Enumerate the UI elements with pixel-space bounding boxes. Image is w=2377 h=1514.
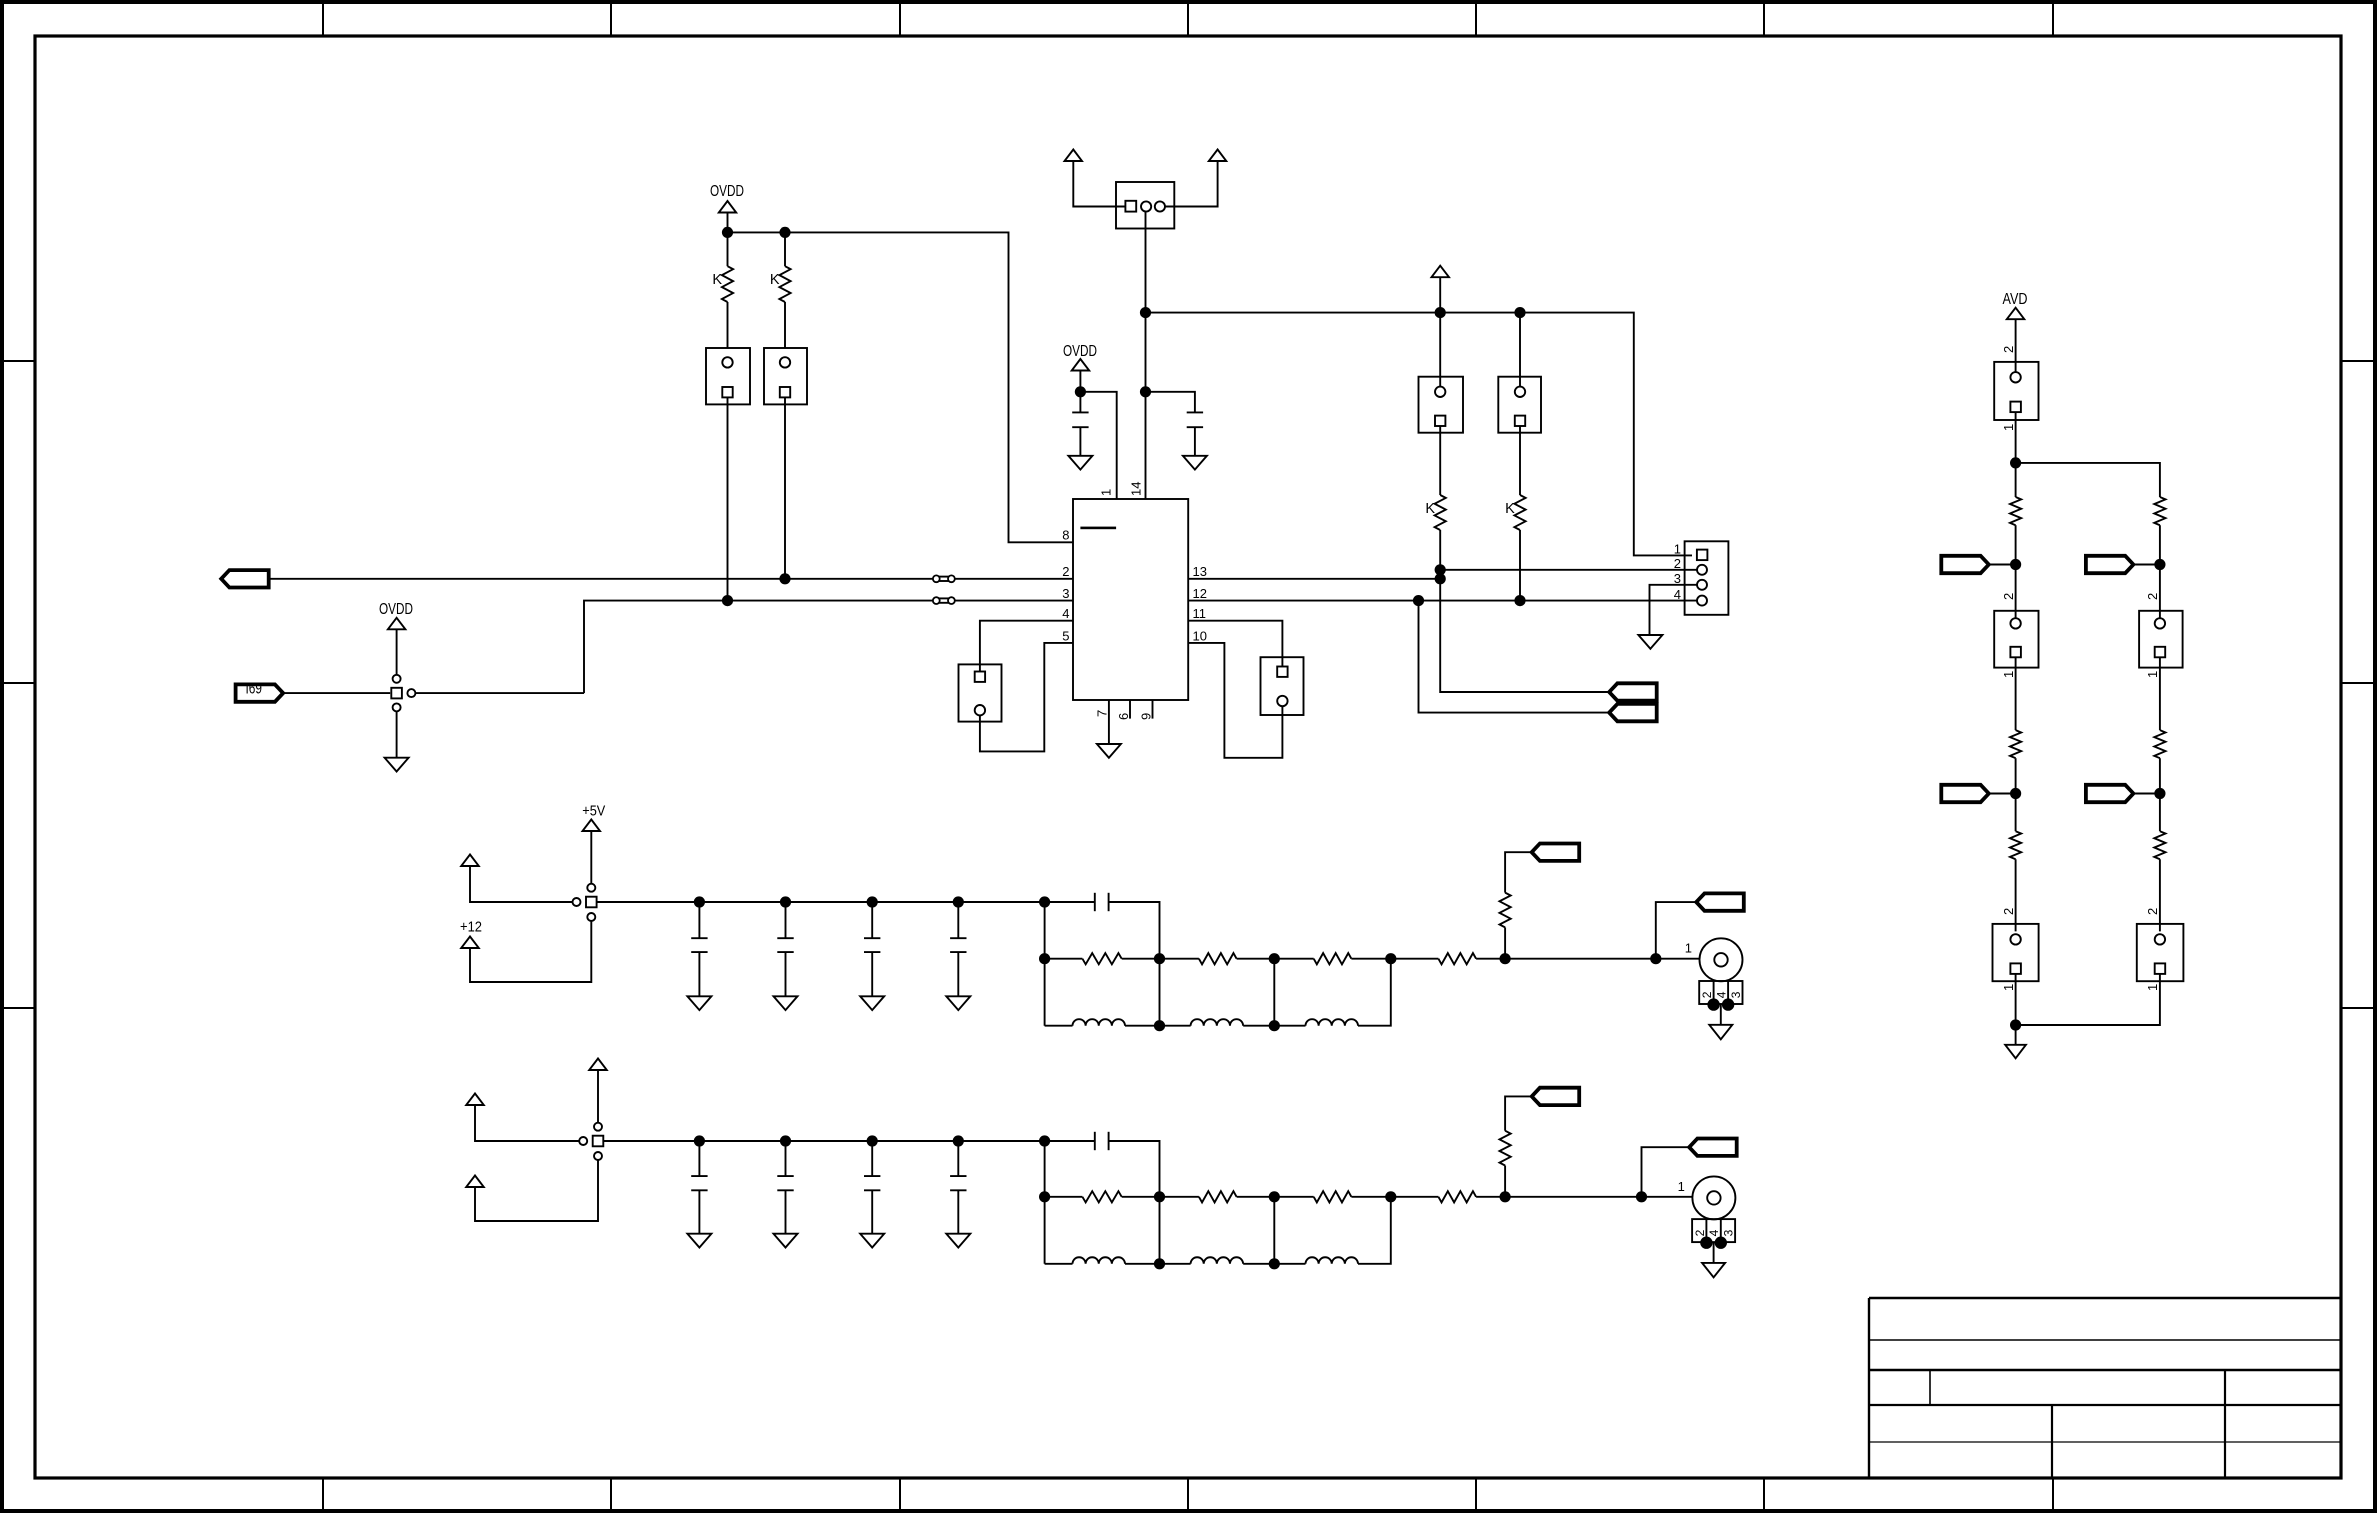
connector J1 (3-pin) bbox=[1116, 182, 1174, 229]
junction dot bbox=[2010, 1019, 2021, 1030]
wire flag F bbox=[2133, 793, 2160, 795]
junction dot bbox=[1269, 1020, 1280, 1031]
resistor R3 (CH2) bbox=[1274, 1196, 1313, 1198]
junction dot bbox=[2154, 788, 2165, 799]
inductor L1 (CH1) bbox=[1045, 1025, 1073, 1027]
svg-text:12: 12 bbox=[1193, 586, 1207, 601]
svg-text:1: 1 bbox=[1099, 489, 1114, 496]
svg-text:13: 13 bbox=[1193, 564, 1207, 579]
svg-text:2: 2 bbox=[1693, 1229, 1707, 1236]
wire left drop (CH2) bbox=[1044, 1141, 1046, 1264]
jumper J4 (4-way, CH2) bbox=[594, 1123, 602, 1131]
wire OVDD to IC pin 1 bbox=[1080, 392, 1116, 499]
junction dot bbox=[1154, 1020, 1165, 1031]
net flag I69 bbox=[236, 684, 284, 701]
wire JP5 to ground node bbox=[2016, 974, 2160, 1025]
inductor L2 (CH2) bbox=[1160, 1263, 1191, 1265]
wire node to JP4 bbox=[2159, 565, 2161, 619]
svg-text:1: 1 bbox=[1674, 542, 1681, 557]
U1 pin 9 stub bbox=[1152, 700, 1154, 719]
wire R-L tie 2 (CH2) bbox=[1273, 1197, 1275, 1264]
jumper TP3 (right pullup 1) bbox=[1419, 377, 1464, 433]
connector J3 (4-pin) bbox=[1685, 541, 1729, 615]
junction dot bbox=[1413, 595, 1424, 606]
power arrow +5V (CH2) bbox=[589, 1059, 607, 1071]
resistor R5 (CH1) bbox=[1504, 927, 1506, 958]
junction dot bbox=[1435, 564, 1446, 575]
wire to TP4 bbox=[1519, 313, 1521, 387]
jumper J2 (4-way) bbox=[393, 675, 401, 683]
junction dot bbox=[1269, 953, 1280, 964]
svg-text:4: 4 bbox=[1062, 606, 1069, 621]
wire to net flag A bbox=[1440, 579, 1609, 692]
junction dot bbox=[1500, 953, 1511, 964]
svg-text:5: 5 bbox=[1062, 629, 1069, 644]
wire pin12 bus to J3 pin4 bbox=[1188, 600, 1697, 602]
resistor R (AVD L2) bbox=[2015, 657, 2017, 730]
svg-text:1: 1 bbox=[1678, 1179, 1685, 1194]
junction dot bbox=[1707, 998, 1719, 1010]
wire bus to J3 pin2 bbox=[1440, 569, 1697, 571]
svg-text:8: 8 bbox=[1062, 528, 1069, 543]
svg-text:6: 6 bbox=[1116, 713, 1131, 720]
junction dot bbox=[779, 573, 790, 584]
junction dot bbox=[1269, 1258, 1280, 1269]
svg-text:1: 1 bbox=[2001, 424, 2016, 431]
junction dot bbox=[1385, 953, 1396, 964]
jumper JP4 bbox=[2139, 611, 2183, 668]
svg-text:9: 9 bbox=[1139, 713, 1154, 720]
resistor R3 (CH1) bbox=[1274, 958, 1313, 960]
junction dot bbox=[1039, 1191, 1050, 1202]
wire TP2 to bus bbox=[784, 397, 786, 578]
wire J1 pin2 down to IC pin 14 bbox=[1145, 212, 1147, 499]
junction dot bbox=[1154, 1191, 1165, 1202]
junction dot bbox=[780, 1135, 791, 1146]
ground (J3 pin3) bbox=[1638, 635, 1662, 649]
resistor R (AVD R2) bbox=[2159, 657, 2161, 730]
wire TP1 to bus bbox=[727, 397, 729, 600]
junction dot bbox=[1435, 573, 1446, 584]
svg-text:OVDD: OVDD bbox=[379, 601, 413, 618]
wire pin13 bus bbox=[1188, 578, 1440, 580]
junction dot bbox=[2154, 559, 2165, 570]
svg-text:14: 14 bbox=[1129, 482, 1144, 496]
ground (RCA CH1) bbox=[1709, 1025, 1732, 1040]
power arrow (left, CH2) bbox=[466, 1094, 484, 1106]
jumper JP5 bbox=[2137, 924, 2184, 981]
ground (cap CH13) bbox=[860, 996, 884, 1010]
svg-text:11: 11 bbox=[1193, 606, 1207, 621]
junction dot bbox=[779, 227, 790, 238]
wire TP6 to U1 pin 10 bbox=[1188, 643, 1282, 758]
jumper TP4 (right pullup 2) bbox=[1498, 377, 1541, 433]
wire U1 pin 4 to TP5 bbox=[980, 621, 1073, 672]
RCA shield block (CH2) bbox=[1692, 1219, 1735, 1242]
junction dot bbox=[2010, 457, 2021, 468]
junction dot bbox=[1435, 307, 1446, 318]
jumper TP5 (left of U1) bbox=[959, 664, 1002, 721]
svg-text:OVDD: OVDD bbox=[710, 183, 744, 200]
svg-text:+5V: +5V bbox=[582, 803, 605, 820]
svg-text:4: 4 bbox=[1707, 1229, 1721, 1236]
junction dot bbox=[953, 1135, 964, 1146]
ground (cap CH23) bbox=[860, 1234, 884, 1248]
wire to TP3 bbox=[1439, 313, 1441, 387]
wire to net flag B bbox=[1419, 601, 1610, 713]
svg-text:1: 1 bbox=[2001, 671, 2016, 678]
inline jumper (pin3 bus) bbox=[936, 597, 951, 599]
U1 pin 6 stub bbox=[1129, 700, 1131, 719]
junction dot bbox=[2010, 559, 2021, 570]
svg-text:K: K bbox=[1425, 501, 1435, 517]
resistor R4 (CH1) bbox=[1391, 958, 1439, 960]
svg-text:I69: I69 bbox=[246, 681, 263, 698]
svg-text:+12: +12 bbox=[460, 919, 482, 936]
svg-text:K: K bbox=[1505, 501, 1515, 517]
ground (cap CH24) bbox=[946, 1234, 970, 1248]
wire to RCA (CH2) bbox=[1642, 1196, 1693, 1198]
inductor L2 (CH1) bbox=[1160, 1025, 1191, 1027]
resistor R (AVD R3) bbox=[2159, 794, 2161, 832]
svg-text:2: 2 bbox=[1674, 556, 1681, 571]
wire +5V bus (CH1) bbox=[597, 901, 1045, 903]
net flag E bbox=[2086, 556, 2134, 573]
capacitor C (CH21) bbox=[698, 1141, 700, 1176]
inductor L3 (CH2) bbox=[1274, 1263, 1305, 1265]
jumper JP1 bbox=[1994, 362, 2038, 420]
svg-text:2: 2 bbox=[2001, 346, 2016, 353]
svg-text:1: 1 bbox=[1685, 941, 1692, 956]
junction dot bbox=[953, 896, 964, 907]
svg-text:3: 3 bbox=[1674, 571, 1681, 586]
capacitor C (CH13) bbox=[871, 902, 873, 938]
svg-text:3: 3 bbox=[1062, 586, 1069, 601]
wire RCA shield to ground bbox=[1713, 1243, 1715, 1263]
resistor K (pullup 2) bbox=[784, 232, 786, 266]
wire OVDD rail bbox=[728, 232, 1074, 542]
net flag D bbox=[1941, 785, 1989, 802]
junction dot bbox=[1039, 953, 1050, 964]
ground (cap CH11) bbox=[687, 996, 711, 1010]
wire pin3 bus bbox=[584, 601, 933, 694]
capacitor C series (CH1) bbox=[1045, 901, 1095, 903]
frame zone ticks bottom bbox=[322, 1478, 324, 1511]
capacitor C2 bbox=[1146, 392, 1195, 413]
net flag C bbox=[1941, 556, 1989, 573]
wire +5V bus (CH2) bbox=[603, 1140, 1044, 1142]
ground (cap CH14) bbox=[946, 996, 970, 1010]
resistor R1 (CH1) bbox=[1045, 958, 1083, 960]
wire J3 pin3 to ground bbox=[1650, 585, 1698, 635]
capacitor C (CH24) bbox=[957, 1141, 959, 1176]
wire left drop (CH1) bbox=[1044, 902, 1046, 1026]
capacitor C (CH23) bbox=[871, 1141, 873, 1176]
ground (U1 pin 7) bbox=[1097, 744, 1121, 758]
svg-text:1: 1 bbox=[2001, 984, 2016, 991]
frame zone ticks top bbox=[322, 2, 324, 36]
junction dot bbox=[1514, 595, 1525, 606]
wire J2 to ground bbox=[396, 711, 398, 757]
junction dot bbox=[867, 896, 878, 907]
junction dot bbox=[1039, 1135, 1050, 1146]
net flag F bbox=[2086, 785, 2134, 802]
svg-text:4: 4 bbox=[1714, 991, 1728, 998]
power arrow (left, CH1) bbox=[461, 855, 479, 867]
net flag (CH1 right) bbox=[1696, 893, 1744, 910]
ground (C2) bbox=[1183, 456, 1207, 470]
capacitor C (CH22) bbox=[785, 1141, 787, 1176]
junction dot bbox=[1514, 307, 1525, 318]
wire flag E bbox=[2133, 564, 2160, 566]
junction dot bbox=[694, 896, 705, 907]
svg-text:7: 7 bbox=[1095, 710, 1110, 717]
svg-text:2: 2 bbox=[1062, 564, 1069, 579]
junction dot bbox=[722, 227, 733, 238]
power arrow (top left of J1) bbox=[1065, 150, 1083, 162]
wire R-L tie 2 (CH1) bbox=[1273, 959, 1275, 1026]
wire flag D bbox=[1989, 793, 2016, 795]
svg-text:4: 4 bbox=[1674, 587, 1681, 602]
RCA connector (CH1) bbox=[1700, 938, 1743, 981]
net flag (CH2 right) bbox=[1689, 1139, 1737, 1156]
net flag (CH1 upper) bbox=[1532, 844, 1580, 861]
ground (RCA CH2) bbox=[1702, 1263, 1725, 1278]
resistor R4 (CH2) bbox=[1391, 1196, 1439, 1198]
svg-text:2: 2 bbox=[2001, 908, 2016, 915]
capacitor C1 bbox=[1079, 392, 1081, 413]
wire J2 to pin3 bus bbox=[415, 692, 584, 694]
junction dot bbox=[722, 595, 733, 606]
junction dot bbox=[1700, 1237, 1712, 1249]
op-amp U1 (14-pin IC) bbox=[1073, 499, 1188, 700]
capacitor C (CH12) bbox=[785, 902, 787, 938]
junction dot bbox=[1650, 953, 1661, 964]
svg-text:OVDD: OVDD bbox=[1063, 343, 1097, 360]
resistor R (AVD L3) bbox=[2015, 794, 2017, 832]
resistor R5 (CH2) bbox=[1504, 1166, 1506, 1197]
jumper JP2 bbox=[1994, 611, 2038, 668]
wire R-L tie 1 (CH2) bbox=[1159, 1197, 1161, 1264]
svg-text:2: 2 bbox=[1700, 991, 1714, 998]
wire flag C bbox=[1989, 564, 2016, 566]
resistor R1 (CH2) bbox=[1045, 1196, 1083, 1198]
junction dot bbox=[1140, 307, 1151, 318]
frame zone ticks right bbox=[2341, 360, 2375, 362]
junction dot bbox=[1269, 1191, 1280, 1202]
net flag A bbox=[1609, 683, 1657, 700]
resistor R (AVD L1) bbox=[2015, 463, 2017, 497]
junction dot bbox=[1140, 386, 1151, 397]
wire U1 pin 11 to TP6 bbox=[1188, 621, 1282, 667]
svg-text:2: 2 bbox=[2001, 593, 2016, 600]
resistor K (pullup 1) bbox=[727, 232, 729, 266]
capacitor C series (CH2) bbox=[1045, 1140, 1095, 1142]
junction dot bbox=[867, 1135, 878, 1146]
resistor R2 (CH2) bbox=[1160, 1196, 1199, 1198]
ground (C1) bbox=[1068, 456, 1092, 470]
wire top rail bbox=[1146, 313, 1693, 556]
wire RCA shield to ground bbox=[1720, 1005, 1722, 1025]
jumper JP3 bbox=[1993, 924, 2039, 981]
junction dot bbox=[780, 896, 791, 907]
junction dot bbox=[694, 1135, 705, 1146]
wire TP5 to U1 pin 5 bbox=[980, 643, 1073, 752]
wire I69 to J2 bbox=[283, 692, 390, 694]
jumper J4 (4-way, CH1) bbox=[587, 884, 595, 892]
jumper TP6 (right of U1) bbox=[1261, 657, 1304, 715]
svg-text:2: 2 bbox=[2145, 908, 2160, 915]
junction dot bbox=[1722, 998, 1734, 1010]
junction dot bbox=[1385, 1191, 1396, 1202]
RCA shield block (CH1) bbox=[1699, 981, 1742, 1004]
resistor R2 (CH1) bbox=[1160, 958, 1199, 960]
net flag (CH2 upper) bbox=[1532, 1088, 1580, 1105]
ground (cap CH22) bbox=[774, 1234, 798, 1248]
junction dot bbox=[1075, 386, 1086, 397]
RCA connector (CH2) bbox=[1692, 1176, 1735, 1219]
power arrow (top right of J1) bbox=[1209, 150, 1227, 162]
junction dot bbox=[2010, 788, 2021, 799]
U1 inverted-name bar bbox=[1080, 527, 1116, 530]
net flag B bbox=[1609, 704, 1657, 721]
net flag (pin2 bus, off-page left) bbox=[221, 570, 269, 587]
svg-text:3: 3 bbox=[1729, 991, 1743, 998]
wire JP1 to node bbox=[2015, 412, 2017, 463]
wire R-L tie 1 (CH1) bbox=[1159, 959, 1161, 1026]
frame zone ticks left bbox=[2, 360, 35, 362]
svg-text:K: K bbox=[712, 272, 722, 288]
svg-text:10: 10 bbox=[1193, 629, 1207, 644]
wire to RCA (CH1) bbox=[1656, 958, 1700, 960]
resistor R (AVD R1) bbox=[2154, 497, 2165, 525]
junction dot bbox=[1715, 1237, 1727, 1249]
resistor K (right pullup 2) bbox=[1519, 426, 1521, 495]
junction dot bbox=[1500, 1191, 1511, 1202]
junction dot bbox=[1154, 953, 1165, 964]
capacitor C (CH14) bbox=[957, 902, 959, 938]
inductor L3 (CH1) bbox=[1274, 1025, 1305, 1027]
svg-text:K: K bbox=[770, 272, 780, 288]
inline jumper (pin2 bus) bbox=[936, 576, 951, 578]
inductor L1 (CH2) bbox=[1045, 1263, 1073, 1265]
wire pin2 bus bbox=[269, 578, 934, 580]
svg-text:1: 1 bbox=[2145, 671, 2160, 678]
svg-text:3: 3 bbox=[1721, 1229, 1735, 1236]
svg-text:1: 1 bbox=[2145, 984, 2160, 991]
wire to net flag (CH1) bbox=[1656, 902, 1697, 959]
jumper TP2 (left pullup 2) bbox=[764, 348, 807, 404]
wire to net flag (CH2) bbox=[1642, 1147, 1690, 1197]
wire U1 pin 7 to ground bbox=[1108, 700, 1110, 744]
ground (cap CH21) bbox=[687, 1234, 711, 1248]
svg-text:AVD: AVD bbox=[2003, 291, 2028, 308]
jumper TP1 (left pullup 1) bbox=[706, 348, 750, 404]
ground (AVD divider) bbox=[2005, 1045, 2026, 1059]
capacitor C (CH11) bbox=[698, 902, 700, 938]
resistor K (right pullup 1) bbox=[1439, 426, 1441, 495]
junction dot bbox=[1154, 1258, 1165, 1269]
power arrow (right rail) bbox=[1432, 266, 1450, 278]
wire node to JP2 bbox=[2015, 565, 2017, 619]
wire JP3 to ground node bbox=[2015, 974, 2017, 1045]
svg-text:2: 2 bbox=[2145, 593, 2160, 600]
ground (J2) bbox=[385, 758, 409, 772]
power arrow +12 (CH2) bbox=[466, 1176, 484, 1188]
wire branch to right column bbox=[2016, 463, 2160, 497]
ground (cap CH12) bbox=[774, 996, 798, 1010]
junction dot bbox=[1039, 896, 1050, 907]
title block bbox=[1869, 1298, 2341, 1478]
junction dot bbox=[1636, 1191, 1647, 1202]
